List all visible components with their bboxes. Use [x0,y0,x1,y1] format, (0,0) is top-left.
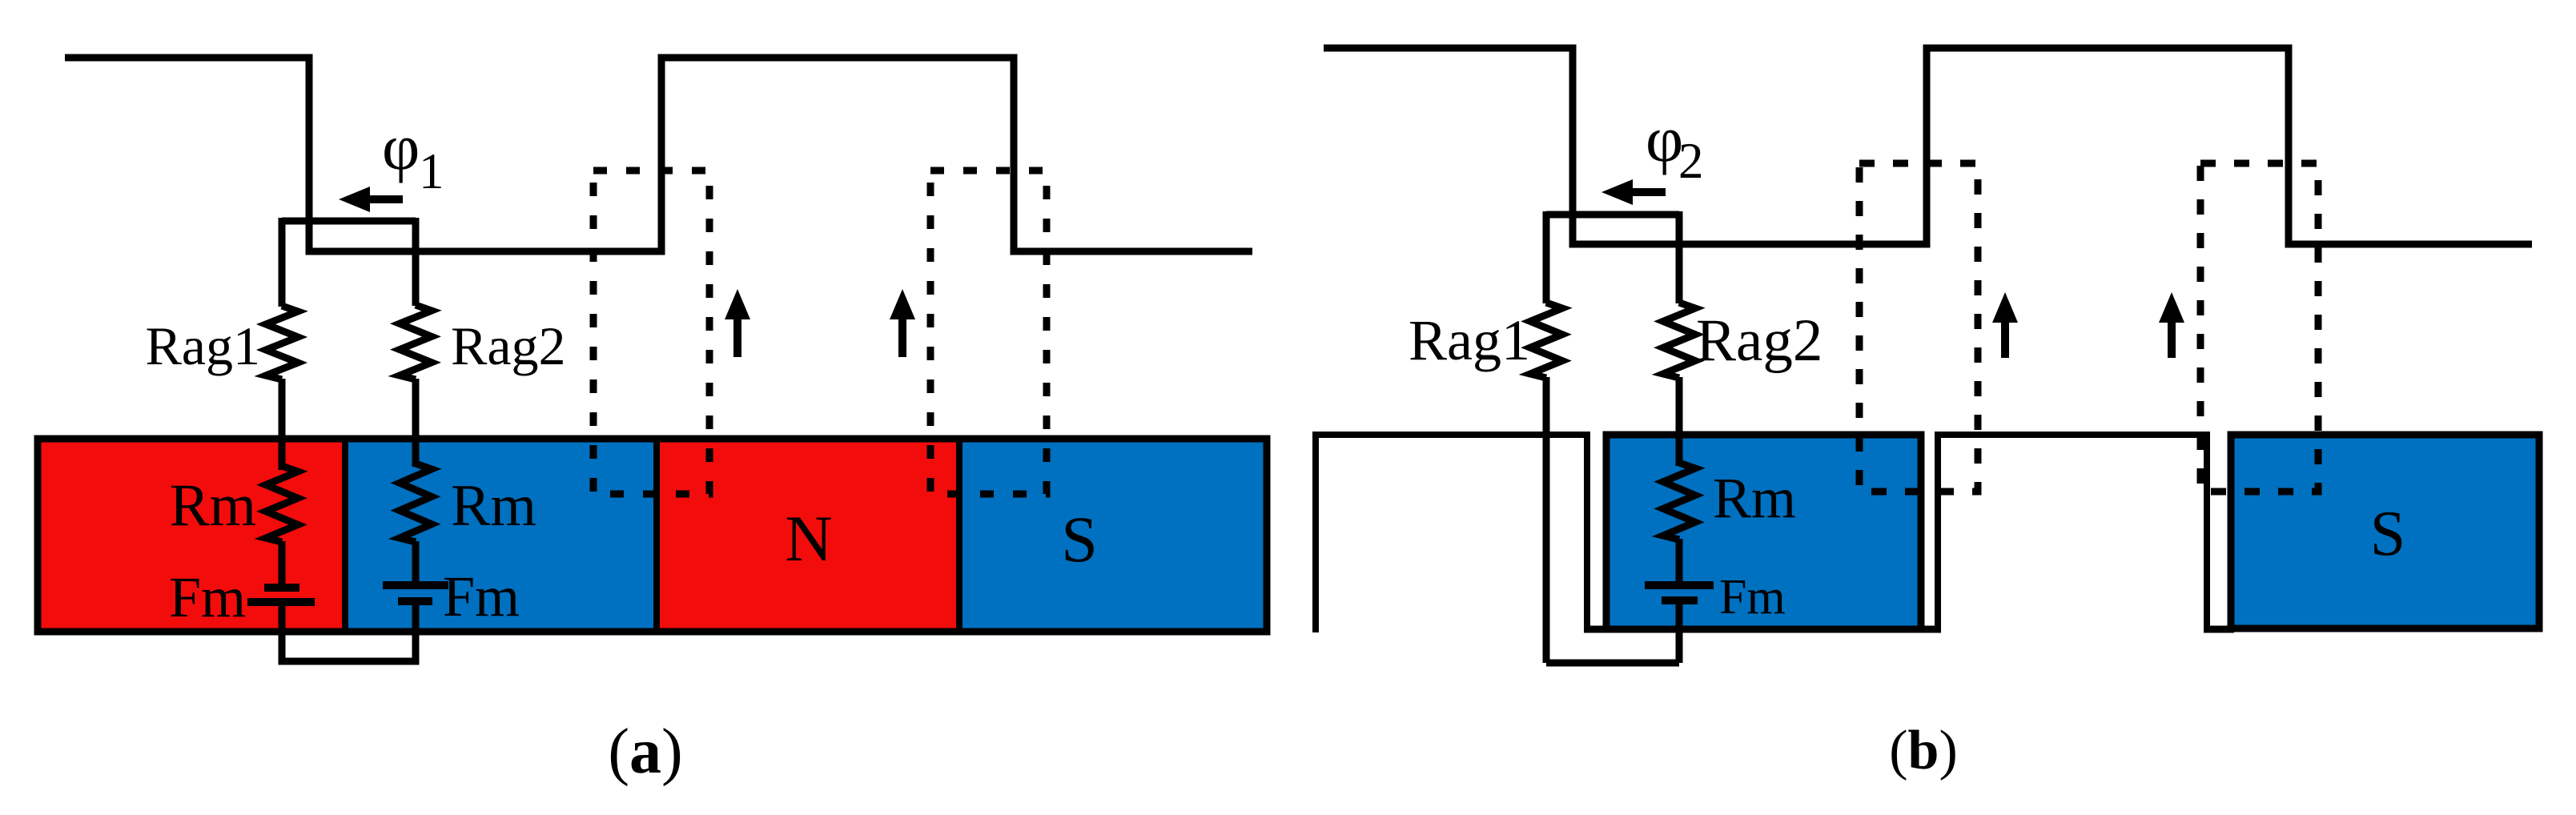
dashed rotor tooth 1 (b) [1859,163,1978,492]
mmf source Fm short plate (b) [1662,596,1698,604]
magnet segment S (blue) of figure (a) [345,439,658,632]
svg-text:S: S [2370,499,2406,569]
wire: loop top edge (a) joining Rag1 and Rag2 tops [282,218,416,225]
svg-text:(b): (b) [1889,720,1958,781]
magnet S (blue, right) of figure (b) [2231,435,2539,628]
stator outline (a): teeth profile [65,58,1252,251]
wire: Rag1 to Rm (a) through magnet border [279,379,286,470]
svg-text:N: N [785,502,832,575]
resistor Rag1 (a) [266,306,298,379]
wire: bottom return loop (a) [282,632,416,661]
wire: Rm to Fm (b) [1676,539,1683,585]
empty magnet slot outline 1 (b) [1316,435,1587,632]
flux arrow shaft phi2 (b) [1630,188,1666,196]
dashed rotor tooth 2 (a) [930,171,1047,494]
svg-text:Fm: Fm [169,565,246,629]
resistor Rag2 (b) [1663,303,1695,378]
svg-text:S: S [1061,503,1098,576]
magnet S (blue, labelled) of figure (a) [959,439,1267,632]
up arrow 1 (a) head [725,289,750,319]
wire: Fm bottom lead (a left) [279,602,286,661]
svg-text:Rag2: Rag2 [1696,307,1822,374]
empty magnet slot outline 2 (b) [1938,435,2207,632]
svg-text:Fm: Fm [443,564,520,628]
flux arrow shaft phi1 (a) [367,195,403,203]
resistor Rag2 (a) [400,305,432,379]
mmf source Fm long plate (a left) [247,598,315,606]
mmf source Fm long plate (b) [1645,581,1714,589]
svg-text:Rag1: Rag1 [145,315,260,376]
mmf source Fm short plate (a left) [264,584,299,592]
svg-text:Rm: Rm [1713,466,1796,530]
up arrow 1 (b) head [1992,292,2018,323]
svg-text:1: 1 [419,143,444,199]
up arrow 1 (a) shaft [733,317,741,357]
wire: Rag1 top lead (a) [279,218,286,307]
wire: Rag2 top lead (b) [1676,211,1683,303]
wire: Rm to Fm (a right) [412,541,420,585]
resistor Rm (a, in blue magnet) [400,464,432,542]
up arrow 2 (b) shaft [2168,320,2176,358]
magnet band border (a) [38,439,1267,632]
slot2 bottom stub (b) [2204,626,2234,633]
up arrow 1 (b) shaft [2001,320,2009,358]
up arrow 2 (a) head [890,289,915,319]
stub between magnet and slot2 (b) [1921,626,1941,633]
wire: loop top edge (b) [1546,211,1679,219]
magnet divider (a) at x=820 [653,436,660,635]
dashed rotor tooth 1 (a) [593,171,709,494]
svg-text:φ: φ [382,110,420,183]
wire: Fm bottom lead (b) [1676,600,1683,663]
svg-text:Rm: Rm [170,472,256,539]
wire: bottom return loop (b) [1546,660,1679,667]
dashed rotor tooth 2 (b) [2200,163,2318,492]
mmf source Fm long plate (a right) [383,581,448,589]
wire: Rag2 to Rm (a) through magnet border [412,379,420,467]
wire: Fm bottom lead (a right) [412,601,420,661]
stator outline (b): teeth profile [1324,48,2532,244]
magnet divider (a) at x=431 [342,436,348,635]
svg-text:Rag2: Rag2 [451,315,566,376]
up arrow 2 (b) head [2159,292,2184,323]
wire: Rag1 down through empty slot to loop (b) [1543,377,1550,663]
svg-text:(a): (a) [608,717,682,787]
svg-text:Rag1: Rag1 [1409,308,1530,372]
mmf source Fm short plate (a right) [398,597,432,605]
up arrow 2 (a) shaft [898,317,906,357]
resistor Rag1 (b) [1530,303,1562,378]
resistor Rm (a, in left red magnet) [266,466,298,542]
svg-text:2: 2 [1678,133,1704,189]
magnet S (blue, middle) of figure (b) [1606,435,1921,629]
magnet N (red, labelled) of figure (a) [658,439,959,632]
svg-text:Rm: Rm [451,473,536,539]
wire: Rag2 top lead (a) [412,218,420,306]
svg-text:Fm: Fm [1719,570,1786,624]
slot1 bottom stub (b) [1584,626,1609,633]
resistor Rm (b) [1663,463,1695,540]
wire: Rag2 to Rm (b) [1676,377,1683,466]
magnet segment N (red, left) of figure (a) [38,439,345,632]
flux arrow head phi2 (b) [1601,179,1633,205]
wire: Rag1 top lead (b) [1543,211,1550,303]
flux arrow head phi1 (a) [339,187,370,212]
magnet divider (a) at x=1198 [956,436,962,635]
wire: Rm to Fm (a left) [279,541,286,588]
